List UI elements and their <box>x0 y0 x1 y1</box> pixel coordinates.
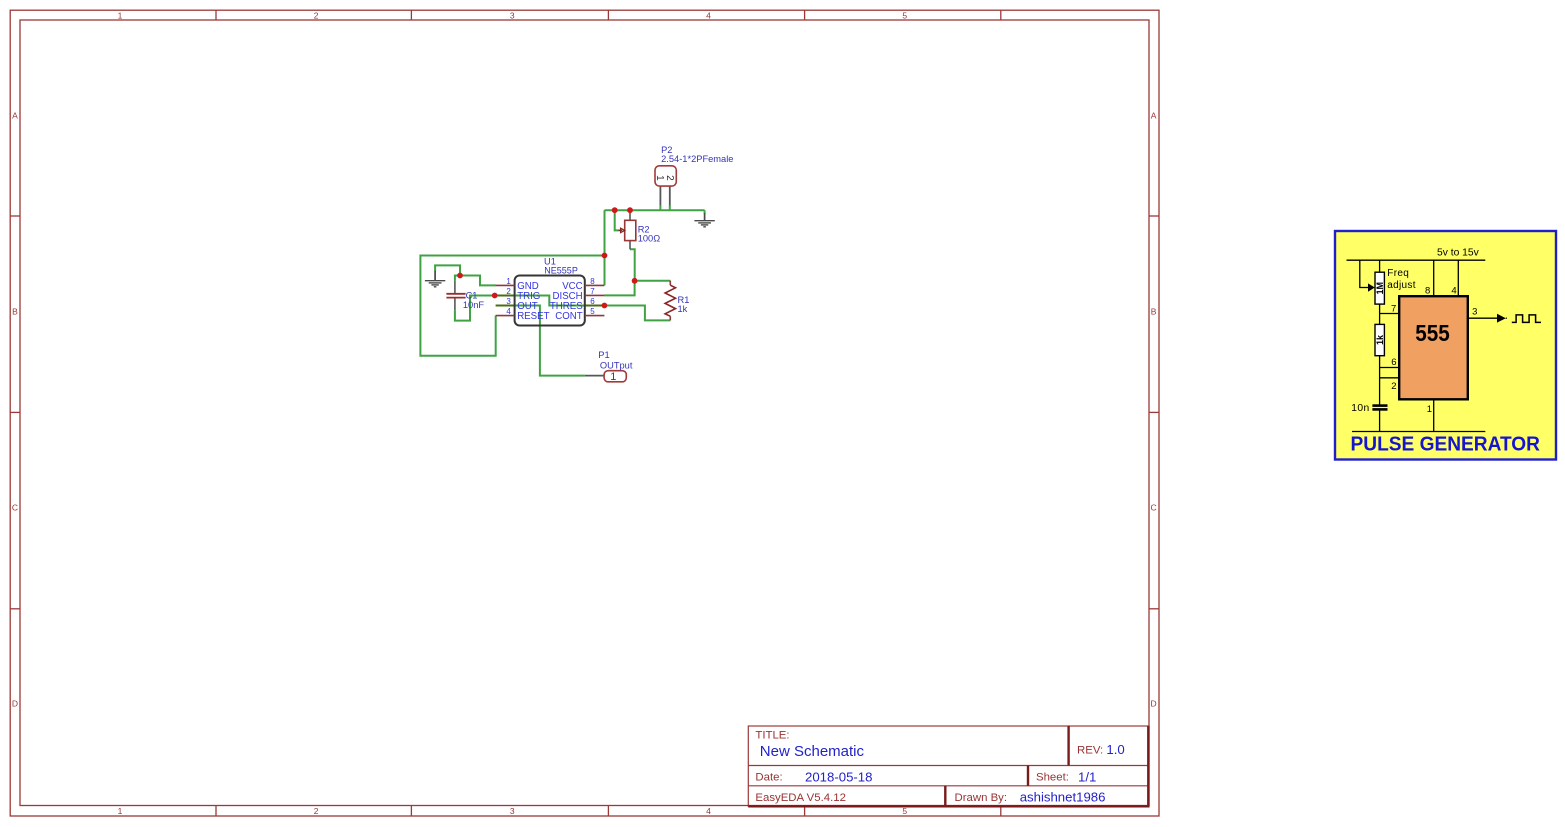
junction dot rail R2 top <box>627 207 633 213</box>
svg-text:PULSE GENERATOR: PULSE GENERATOR <box>1351 433 1541 455</box>
svg-text:C1: C1 <box>466 291 478 301</box>
svg-text:2018-05-18: 2018-05-18 <box>805 770 872 785</box>
svg-text:Sheet:: Sheet: <box>1036 772 1069 784</box>
U1 pin numbers <box>506 277 595 316</box>
junction dot rail wiper <box>612 207 618 213</box>
svg-text:8: 8 <box>590 277 595 286</box>
svg-text:10n: 10n <box>1351 403 1369 414</box>
svg-text:EasyEDA V5.4.12: EasyEDA V5.4.12 <box>755 792 846 804</box>
pin 4 line + label <box>1457 260 1459 296</box>
svg-text:A: A <box>1151 111 1157 121</box>
svg-text:CONT: CONT <box>555 311 583 322</box>
wire VCC rail vertical <box>604 210 606 285</box>
svg-text:1k: 1k <box>678 304 688 314</box>
junction dot VCC <box>602 253 608 259</box>
svg-text:1M: 1M <box>1375 282 1385 295</box>
svg-text:3: 3 <box>510 10 515 20</box>
svg-text:1: 1 <box>610 371 616 383</box>
svg-text:adjust: adjust <box>1387 280 1416 291</box>
svg-text:1/1: 1/1 <box>1078 770 1096 785</box>
svg-text:100Ω: 100Ω <box>638 234 661 244</box>
junction dot THRES <box>602 303 608 309</box>
svg-text:Date:: Date: <box>755 772 782 784</box>
wire olive THRES stub overlap <box>585 305 605 307</box>
svg-text:555: 555 <box>1415 320 1450 346</box>
svg-text:Freq: Freq <box>1387 268 1409 279</box>
svg-text:10nF: 10nF <box>463 300 485 310</box>
svg-text:4: 4 <box>506 307 511 316</box>
connector P2 <box>654 166 677 206</box>
wire R2 bottom vertical <box>630 249 635 280</box>
svg-text:8: 8 <box>1425 285 1430 296</box>
svg-text:B: B <box>12 307 18 317</box>
wire VCC top rail <box>605 209 705 211</box>
svg-text:1k: 1k <box>1375 334 1385 345</box>
junction dot C1 top <box>457 273 463 279</box>
svg-text:6: 6 <box>1391 357 1396 368</box>
wire olive OUT stub overlap <box>496 305 515 307</box>
svg-text:5: 5 <box>902 10 907 20</box>
capacitor 10n <box>1372 404 1387 407</box>
panel background <box>1335 231 1556 460</box>
svg-text:4: 4 <box>706 806 711 816</box>
svg-text:5v to 15v: 5v to 15v <box>1437 248 1480 259</box>
svg-text:7: 7 <box>1391 303 1396 314</box>
svg-text:1: 1 <box>1427 404 1432 415</box>
pin 3 output line + arrow <box>1468 317 1498 319</box>
freq adjust drop + arrow <box>1360 260 1368 287</box>
ground symbol left <box>425 271 445 287</box>
connector P1 <box>585 371 627 384</box>
resistor R1 zigzag <box>665 281 675 321</box>
svg-text:1.0: 1.0 <box>1106 742 1124 757</box>
wire R2 wiper drop <box>615 210 620 230</box>
svg-text:1: 1 <box>118 806 123 816</box>
resistor 1k <box>1375 324 1384 355</box>
svg-text:RESET: RESET <box>517 311 549 322</box>
wire OUT net <box>515 306 585 376</box>
U1 pin names <box>517 281 583 322</box>
svg-text:C: C <box>1151 503 1157 513</box>
wire P2 pin drops <box>659 205 661 210</box>
wire right-ground drop <box>704 210 706 214</box>
op-amp U1 body (NE555P) <box>515 276 585 326</box>
svg-text:6: 6 <box>590 297 595 306</box>
junction dot DISCH/R1/R2 <box>632 278 638 284</box>
pin 1 line + label <box>1433 399 1435 431</box>
svg-text:5: 5 <box>590 307 595 316</box>
pin 2 line + label <box>1380 377 1400 379</box>
ground symbol right <box>694 213 714 227</box>
svg-text:New Schematic: New Schematic <box>760 743 865 760</box>
pin 7 line + label <box>1380 313 1400 315</box>
resistor R2 (potentiometer) <box>619 210 636 249</box>
wire R1 top to DISCH junction <box>635 280 671 282</box>
wire olive TRIG stub overlap <box>496 295 515 297</box>
svg-text:2: 2 <box>1391 381 1396 392</box>
svg-text:3: 3 <box>1472 307 1477 318</box>
svg-text:2: 2 <box>664 175 675 181</box>
svg-text:D: D <box>1151 699 1157 709</box>
svg-text:Drawn By:: Drawn By: <box>955 792 1008 804</box>
supply rail top <box>1347 259 1486 261</box>
svg-text:2: 2 <box>314 806 319 816</box>
svg-text:1: 1 <box>506 277 511 286</box>
svg-text:7: 7 <box>590 287 595 296</box>
555 chip body <box>1399 296 1468 399</box>
pin 6 line + label <box>1380 367 1400 369</box>
svg-text:4: 4 <box>706 10 711 20</box>
svg-text:4: 4 <box>1451 285 1456 296</box>
svg-text:OUTput: OUTput <box>600 360 633 370</box>
svg-text:REV:: REV: <box>1077 745 1103 757</box>
U1 pin stubs <box>496 285 605 315</box>
svg-text:1: 1 <box>118 10 123 20</box>
wire GND pin1 <box>460 276 496 286</box>
wire ground-left to C1 top <box>435 265 460 275</box>
junction dot TRIG <box>492 293 498 299</box>
bottom rail <box>1352 431 1485 433</box>
svg-text:2: 2 <box>506 287 511 296</box>
square wave symbol <box>1512 315 1541 323</box>
svg-text:ashishnet1986: ashishnet1986 <box>1020 790 1106 805</box>
svg-text:3: 3 <box>510 806 515 816</box>
svg-text:D: D <box>12 699 18 709</box>
svg-text:C: C <box>12 503 18 513</box>
wire THRES to R1 bottom <box>604 306 670 321</box>
wire C1 top jog <box>455 276 460 281</box>
capacitor C1 <box>446 281 465 310</box>
svg-text:3: 3 <box>506 297 511 306</box>
wire VCC loop left <box>420 256 604 356</box>
svg-text:TITLE:: TITLE: <box>755 730 789 742</box>
svg-text:NE555P: NE555P <box>544 265 578 275</box>
svg-text:2: 2 <box>314 10 319 20</box>
svg-text:P1: P1 <box>598 350 609 360</box>
left vertical main line <box>1379 260 1381 431</box>
pin 8 line + label <box>1433 260 1435 296</box>
wire DISCH branch <box>604 281 634 296</box>
resistor 1M <box>1375 272 1384 304</box>
svg-text:A: A <box>12 111 18 121</box>
wire TRIG-THRES link <box>515 296 585 306</box>
svg-text:B: B <box>1151 307 1157 317</box>
wire C1 bottom to TRIG <box>455 296 495 321</box>
svg-text:1: 1 <box>654 175 665 181</box>
svg-text:2.54-1*2PFemale: 2.54-1*2PFemale <box>661 154 733 164</box>
